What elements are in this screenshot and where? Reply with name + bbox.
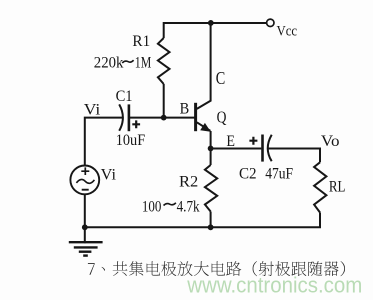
svg-text:220k: 220k — [94, 54, 124, 71]
svg-text:B: B — [180, 101, 190, 118]
svg-text:RL: RL — [329, 179, 346, 196]
svg-text:10uF: 10uF — [116, 132, 146, 149]
svg-text:Vi: Vi — [84, 101, 101, 118]
svg-text:47uF: 47uF — [265, 165, 293, 182]
svg-text:www.cntronics.com: www.cntronics.com — [186, 273, 362, 298]
svg-text:C: C — [216, 68, 226, 88]
svg-text:100: 100 — [142, 199, 162, 216]
svg-text:Vcc: Vcc — [277, 24, 298, 40]
svg-text:Q: Q — [217, 108, 227, 127]
svg-text:R1: R1 — [132, 33, 150, 50]
svg-text:4.7k: 4.7k — [177, 199, 200, 216]
svg-text:Vi: Vi — [101, 167, 117, 184]
svg-text:C2: C2 — [239, 165, 257, 182]
svg-text:1M: 1M — [135, 55, 152, 72]
svg-text:Vo: Vo — [321, 133, 340, 150]
svg-text:R2: R2 — [179, 174, 198, 191]
svg-text:E: E — [226, 133, 235, 150]
svg-text:C1: C1 — [116, 88, 133, 105]
